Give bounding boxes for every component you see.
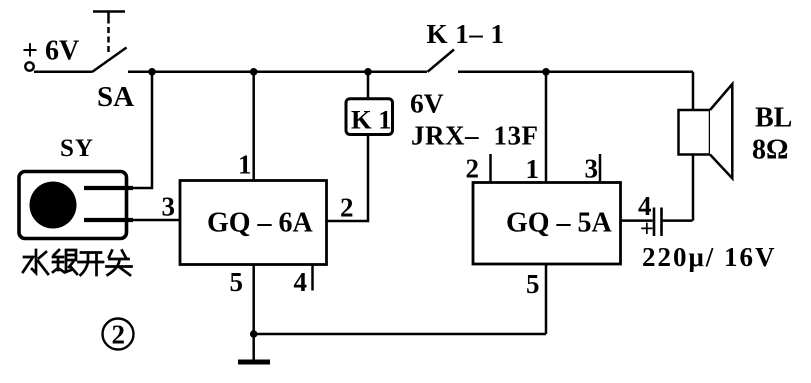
node junction K1 coil	[364, 68, 372, 76]
svg-text:8Ω: 8Ω	[752, 135, 788, 166]
pin3 stub GQ-5A	[599, 154, 602, 183]
svg-text:BL: BL	[755, 103, 792, 134]
relay contact K1-1 blade	[428, 50, 455, 72]
IC GQ-6A body	[180, 181, 327, 265]
SY top electrode	[84, 186, 133, 190]
svg-text:GQ – 6A: GQ – 6A	[207, 208, 314, 239]
svg-text:2: 2	[340, 193, 354, 223]
svg-text:220μ/ 16V: 220μ/ 16V	[642, 242, 777, 272]
svg-text:2: 2	[112, 320, 126, 350]
speaker BL frame	[679, 110, 711, 155]
svg-text:K 1– 1: K 1– 1	[427, 19, 505, 49]
ground stem	[252, 334, 255, 360]
ground symbol	[238, 360, 270, 365]
wire pin2 GQ-6A to K1 coil	[327, 135, 369, 222]
svg-text:3: 3	[162, 192, 176, 222]
wire junction to SY top electrode	[126, 72, 152, 188]
svg-text:SY: SY	[60, 135, 94, 162]
speaker BL cone	[710, 84, 732, 178]
char guan	[107, 251, 132, 276]
svg-text:2: 2	[466, 154, 480, 184]
wire pin4 GQ-5A to capacitor	[621, 219, 653, 222]
wire terminal to SA	[34, 71, 92, 74]
wire K1-1 to speaker corner	[458, 71, 693, 74]
figure number circle 2	[103, 319, 134, 350]
IC GQ-5A body	[473, 183, 621, 265]
mercury drop	[30, 182, 77, 229]
node ground junction	[250, 330, 258, 338]
node junction GQ-5A pin1	[542, 68, 550, 76]
SY bottom electrode	[84, 218, 133, 222]
svg-text:+: +	[640, 217, 654, 243]
switch SA actuator dashed	[107, 18, 110, 53]
wire SA to K1-1	[128, 71, 427, 74]
relay coil K1 body	[346, 99, 393, 135]
ground bus wire	[254, 333, 546, 336]
node junction SY branch	[148, 68, 156, 76]
svg-text:4: 4	[294, 267, 308, 297]
svg-text:SA: SA	[97, 81, 134, 113]
svg-text:5: 5	[230, 267, 244, 297]
svg-text:3: 3	[585, 154, 599, 184]
wire top right corner down to speaker	[692, 72, 695, 110]
wire capacitor to speaker branch	[662, 219, 693, 222]
mercury switch SY body	[19, 172, 127, 239]
pin4 stub GQ-6A	[311, 265, 314, 291]
svg-text:1: 1	[526, 154, 540, 184]
capacitor C 220u right plate	[660, 208, 663, 237]
svg-text:GQ – 5A: GQ – 5A	[506, 208, 613, 239]
wire speaker bottom down	[692, 155, 695, 221]
battery terminal node	[25, 62, 33, 70]
node junction GQ-6A pin1	[250, 68, 258, 76]
wire pin5 GQ-5A down	[545, 264, 548, 334]
switch SA blade	[92, 48, 127, 73]
switch SA pushbutton bar	[93, 12, 125, 19]
svg-text:5: 5	[526, 269, 540, 299]
svg-text:1: 1	[238, 150, 252, 180]
svg-text:K 1: K 1	[351, 105, 392, 135]
wire pin1 GQ-6A	[252, 72, 255, 181]
wire K1 coil top	[367, 72, 370, 99]
pin2 stub GQ-5A	[489, 154, 492, 183]
char shui	[23, 250, 48, 274]
wire pin1 GQ-5A	[545, 72, 548, 183]
char yin	[53, 250, 77, 274]
wire SY to pin3	[133, 219, 180, 222]
wire pin5 GQ-6A down	[252, 265, 255, 335]
svg-text:JRX– 13F: JRX– 13F	[411, 121, 539, 151]
capacitor C 220u left plate	[653, 208, 656, 237]
char kai	[79, 253, 104, 276]
svg-text:6V: 6V	[410, 88, 444, 119]
label mercury-switch (hand-drawn CJK)	[23, 250, 132, 275]
